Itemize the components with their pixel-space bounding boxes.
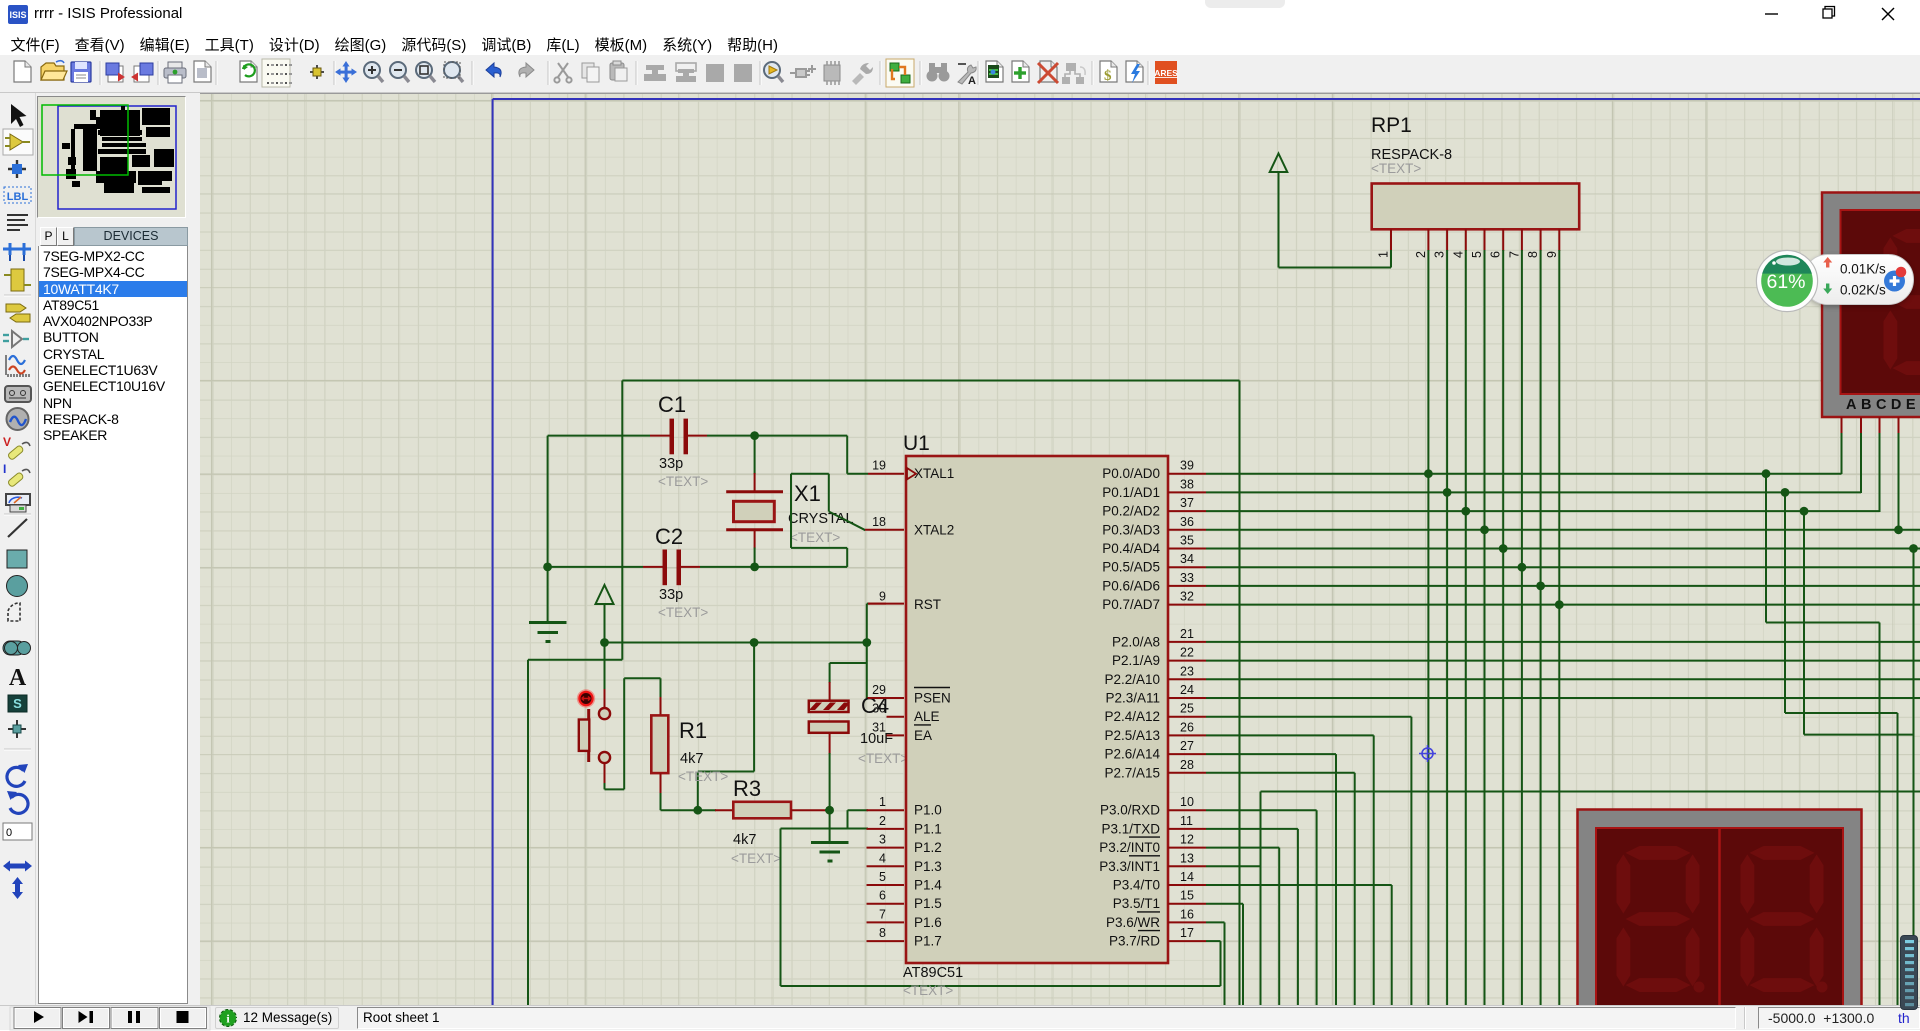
svg-text:4: 4 [879,851,886,865]
svg-text:ABCDE: ABCDE [1846,397,1920,413]
svg-text:I: I [3,462,6,476]
svg-text:12: 12 [1180,833,1194,847]
svg-text:P1.6: P1.6 [914,915,942,930]
svg-text:P3.3/INT1: P3.3/INT1 [1099,859,1160,874]
overlay: speed widget pill [1802,254,1914,305]
node: P0.5/RP1 junction [1518,563,1527,572]
svg-text:4k7: 4k7 [680,751,703,767]
wire: PSEN pin 29 stub [867,697,886,699]
svg-text:ISIS: ISIS [9,10,26,20]
svg-text:25: 25 [1180,702,1194,716]
pin 4 RP1 [1465,229,1467,251]
svg-text:P0.3/AD3: P0.3/AD3 [1102,522,1160,537]
svg-text:P3.4/T0: P3.4/T0 [1113,878,1160,893]
svg-text:0.01K/s: 0.01K/s [1840,262,1886,277]
svg-text:3: 3 [879,833,886,847]
svg-text:A: A [9,665,27,691]
svg-text:P3.5/T1: P3.5/T1 [1113,896,1160,911]
svg-text:P1.4: P1.4 [914,878,942,893]
node: P0.0/RP1 junction [1424,469,1433,478]
display DS2 (dual 7-seg) [1578,810,1862,1007]
wire: P1.0 hook [848,809,869,811]
resistor pack RP1 RESPACK-8 [1372,184,1580,230]
svg-text:P2.3/A11: P2.3/A11 [1105,691,1160,706]
wire: P0.1 net [1206,491,1861,493]
wire: branch down from rail to R3 node [753,643,755,772]
svg-text:X1: X1 [794,481,821,506]
svg-text:A: A [968,75,976,87]
svg-text:11: 11 [1180,814,1193,828]
node: P0.6/RP1 junction [1536,582,1545,591]
wire: segment bus row y=790 [1261,791,1920,793]
node: P0.3/RP1 junction [1480,525,1489,534]
pin 1 RP1 [1390,229,1392,251]
svg-text:26: 26 [1180,720,1194,734]
wire: EA pin 31 stub [887,734,905,736]
wire: P0.2 net [1206,510,1880,512]
svg-text:EA: EA [914,728,932,743]
svg-text:P3.1/TXD: P3.1/TXD [1101,821,1160,836]
svg-text:<TEXT>: <TEXT> [1371,161,1421,176]
svg-text:U1: U1 [903,432,930,455]
svg-text:9: 9 [879,590,886,604]
svg-text:ALE: ALE [914,709,940,724]
svg-text:15: 15 [1180,889,1194,903]
wire: display column C drop [1800,507,1809,516]
svg-text:4: 4 [1451,251,1465,258]
svg-text:P1.7: P1.7 [914,934,942,949]
wire: power rail y=642 [605,642,867,644]
svg-text:P1.0: P1.0 [914,803,942,818]
wire: XTAL2 staple route [790,474,792,548]
svg-text:C1: C1 [658,392,686,417]
svg-text:22: 22 [1180,646,1194,660]
pin 7 RP1 [1521,229,1523,251]
svg-text:V: V [3,435,11,449]
svg-text:P3.0/RXD: P3.0/RXD [1100,803,1160,818]
svg-text:AT89C51: AT89C51 [903,965,963,981]
node: C2 left junction [543,563,552,572]
svg-text:P2.7/A15: P2.7/A15 [1104,765,1160,780]
pin 2 RP1 [1427,229,1429,251]
wire: P0.0 net [1206,473,1842,475]
power terminal (RP1 VCC arrow) [1279,267,1392,269]
wire: C1-to-ground vertical x=548 [547,436,549,623]
wire: display column B drop [1781,488,1790,497]
wire: P0.7 net [1206,604,1920,606]
node: P0.2/RP1 junction [1461,507,1470,516]
node: P0.4 right junction [1909,544,1918,553]
svg-text:$: $ [1104,68,1112,84]
pin 3 RP1 [1446,229,1448,251]
svg-text:18: 18 [872,515,886,529]
pin 8 RP1 [1540,229,1542,251]
wire: P3.5 net [1206,903,1243,905]
wire: P0.3 net [1206,529,1920,531]
svg-text:PSEN: PSEN [914,691,951,706]
svg-text:7: 7 [879,907,886,921]
svg-text:P3.7/RD: P3.7/RD [1109,934,1160,949]
svg-text:8: 8 [1526,251,1540,258]
svg-text:XTAL2: XTAL2 [914,522,954,537]
wire: display column A drop [1762,469,1771,478]
wire: P2.7 net [1206,772,1355,774]
node: C1/XTAL1 junction [750,431,759,440]
wire: P2.2 net [1206,678,1920,680]
svg-text:R3: R3 [733,776,761,801]
resistor R1 [660,678,662,698]
svg-text:<TEXT>: <TEXT> [858,751,908,766]
button actuator (red indicator) [577,689,595,707]
svg-text:38: 38 [1180,477,1194,491]
wire: P3.0 net [1206,809,1317,811]
power terminal (VCC arrow) [596,585,614,604]
svg-text:8: 8 [879,926,886,940]
svg-text:5: 5 [879,870,886,884]
svg-text:35: 35 [1180,534,1194,548]
wire: P2.6 net [1206,753,1336,755]
svg-text:23: 23 [1180,664,1194,678]
svg-text:36: 36 [1180,515,1194,529]
pin 5 RP1 [1484,229,1486,251]
wire: horizontal y=659 [528,659,622,661]
svg-text:P0.2/AD2: P0.2/AD2 [1102,504,1160,519]
svg-text:P0.5/AD5: P0.5/AD5 [1102,560,1160,575]
svg-text:6: 6 [1489,251,1503,258]
svg-text:P3.2/INT0: P3.2/INT0 [1099,840,1160,855]
wire: P0.5 net [1206,566,1920,568]
wire: P3.3 net [1206,865,1261,867]
svg-text:1: 1 [1377,251,1391,258]
pin B DS1 [1860,417,1862,434]
svg-text:33: 33 [1180,571,1194,585]
wire: vertical x=1240 [1239,381,1241,1007]
svg-text:P1.3: P1.3 [914,859,942,874]
wire: top horizontal y=380 [622,380,1239,382]
button (BUTTON) [604,689,606,708]
svg-text:P2.2/A10: P2.2/A10 [1104,672,1160,687]
wire: return path to P3.7 [781,828,830,830]
svg-text:14: 14 [1180,870,1194,884]
svg-text:31: 31 [872,720,886,734]
node: rail/crystal-branch junction [750,638,759,647]
svg-text:28: 28 [1180,758,1194,772]
svg-text:37: 37 [1180,496,1194,510]
svg-text:30: 30 [872,702,886,716]
svg-text:33p: 33p [659,587,683,603]
svg-text:<TEXT>: <TEXT> [658,474,708,489]
wire: P2.1 net [1206,660,1920,662]
svg-text:P0.1/AD1: P0.1/AD1 [1102,485,1160,500]
svg-text:<TEXT>: <TEXT> [790,530,840,545]
wire: C1 row y=435 [548,435,650,437]
svg-text:16: 16 [1180,907,1194,921]
svg-text:P2.1/A9: P2.1/A9 [1112,653,1160,668]
svg-text:6: 6 [879,889,886,903]
svg-text:RST: RST [914,597,941,612]
wire: C4 hook [830,662,867,664]
svg-text:ARES: ARES [1154,68,1178,78]
crystal X1 [754,436,756,474]
svg-text:P0.0/AD0: P0.0/AD0 [1102,466,1160,481]
svg-text:S: S [13,696,22,711]
svg-text:24: 24 [1180,683,1194,697]
svg-text:P1.2: P1.2 [914,840,942,855]
wire: P3.6 net [1206,921,1225,923]
wire: ALE pin 30 stub [887,716,905,718]
svg-text:29: 29 [872,683,886,697]
wire: P1.1 hook [830,828,868,830]
svg-text:32: 32 [1180,590,1194,604]
wire: P2.4 net [1206,716,1411,718]
svg-text:RP1: RP1 [1371,114,1412,137]
wire: P2.5 net [1206,734,1374,736]
overlay: 61% ball [1752,246,1822,316]
wire: P0.4 net [1206,548,1920,550]
svg-text:P3.6/WR: P3.6/WR [1106,915,1160,930]
display DS1 (7-seg, right edge) [1822,193,1920,418]
node: R3 right junction [825,806,834,815]
svg-text:0: 0 [6,827,12,839]
node: P0.1/RP1 junction [1443,488,1452,497]
svg-text:P1.5: P1.5 [914,896,942,911]
svg-text:3: 3 [1433,251,1447,258]
wire: P2.0 net [1206,641,1920,643]
capacitor C2 [643,566,664,568]
node: rail/RST junction [862,638,871,647]
node: P0.3 display junction [1894,525,1903,534]
svg-text:P2.6/A14: P2.6/A14 [1104,747,1160,762]
wire: P3.4 net [1206,884,1392,886]
svg-text:<TEXT>: <TEXT> [903,983,953,998]
node: R3 left junction [693,806,702,815]
capacitor C1 [650,435,671,437]
svg-text:5: 5 [1470,251,1484,258]
wire: XTAL1 corner down to pin 19 [846,436,848,474]
svg-text:34: 34 [1180,552,1194,566]
pin 9 RP1 [1558,229,1560,251]
wire: net loop vertical x=528 [527,660,529,1006]
pin 6 RP1 [1502,229,1504,251]
svg-text:P0.6/AD6: P0.6/AD6 [1102,578,1160,593]
node: P0.4/RP1 junction [1499,544,1508,553]
svg-text:0.02K/s: 0.02K/s [1840,283,1886,298]
svg-text:P0.4/AD4: P0.4/AD4 [1102,541,1160,556]
svg-text:P2.4/A12: P2.4/A12 [1104,709,1160,724]
svg-text:R1: R1 [679,718,707,743]
node: origin marker [1419,745,1436,762]
sheet border (blue) [493,98,1920,100]
svg-text:P1.1: P1.1 [914,821,942,836]
svg-text:17: 17 [1180,926,1194,940]
wire: C2 row y=566 [548,566,643,568]
svg-text:33p: 33p [659,456,683,472]
wire: P2.3 net [1206,697,1920,699]
wire: P3.2 net [1206,847,1279,849]
ground (reset network) [829,810,831,842]
svg-text:27: 27 [1180,739,1194,753]
svg-text:C2: C2 [655,524,683,549]
ground (C2) [529,621,567,624]
wire: RST pin 9 [866,604,868,698]
svg-text:2: 2 [879,814,886,828]
svg-text:1: 1 [879,795,886,809]
svg-text:P2.5/A13: P2.5/A13 [1104,728,1160,743]
pin A DS1 [1841,417,1843,434]
wire: P0.6 net [1206,585,1920,587]
svg-text:<TEXT>: <TEXT> [658,605,708,620]
svg-text:19: 19 [872,459,886,473]
svg-text:21: 21 [1180,627,1194,641]
svg-text:P0.7/AD7: P0.7/AD7 [1102,597,1160,612]
svg-text:39: 39 [1180,459,1194,473]
svg-text:61%: 61% [1766,271,1805,293]
pin D DS1 [1898,417,1900,434]
svg-text:XTAL1: XTAL1 [914,466,954,481]
IC U1 AT89C51 [906,456,1168,963]
svg-text:10: 10 [1180,795,1194,809]
resistor R3 [661,809,698,811]
node: power rail junction [600,638,609,647]
svg-text:<TEXT>: <TEXT> [678,769,728,784]
pin C DS1 [1879,417,1881,434]
svg-text:7: 7 [1507,251,1521,258]
wire: P3.1 net [1206,828,1298,830]
node: P0.7/RP1 junction [1555,600,1564,609]
svg-text:P2.0/A8: P2.0/A8 [1112,634,1160,649]
capacitor C4 (electrolytic) [829,682,831,701]
svg-text:4k7: 4k7 [733,832,756,848]
svg-text:<TEXT>: <TEXT> [731,851,781,866]
svg-text:2: 2 [1414,251,1428,258]
svg-text:LBL: LBL [7,191,29,203]
svg-text:9: 9 [1545,251,1559,258]
node: C2/XTAL2 junction [750,563,759,572]
svg-text:13: 13 [1180,851,1194,865]
wire: vertical x=622 [621,381,623,660]
